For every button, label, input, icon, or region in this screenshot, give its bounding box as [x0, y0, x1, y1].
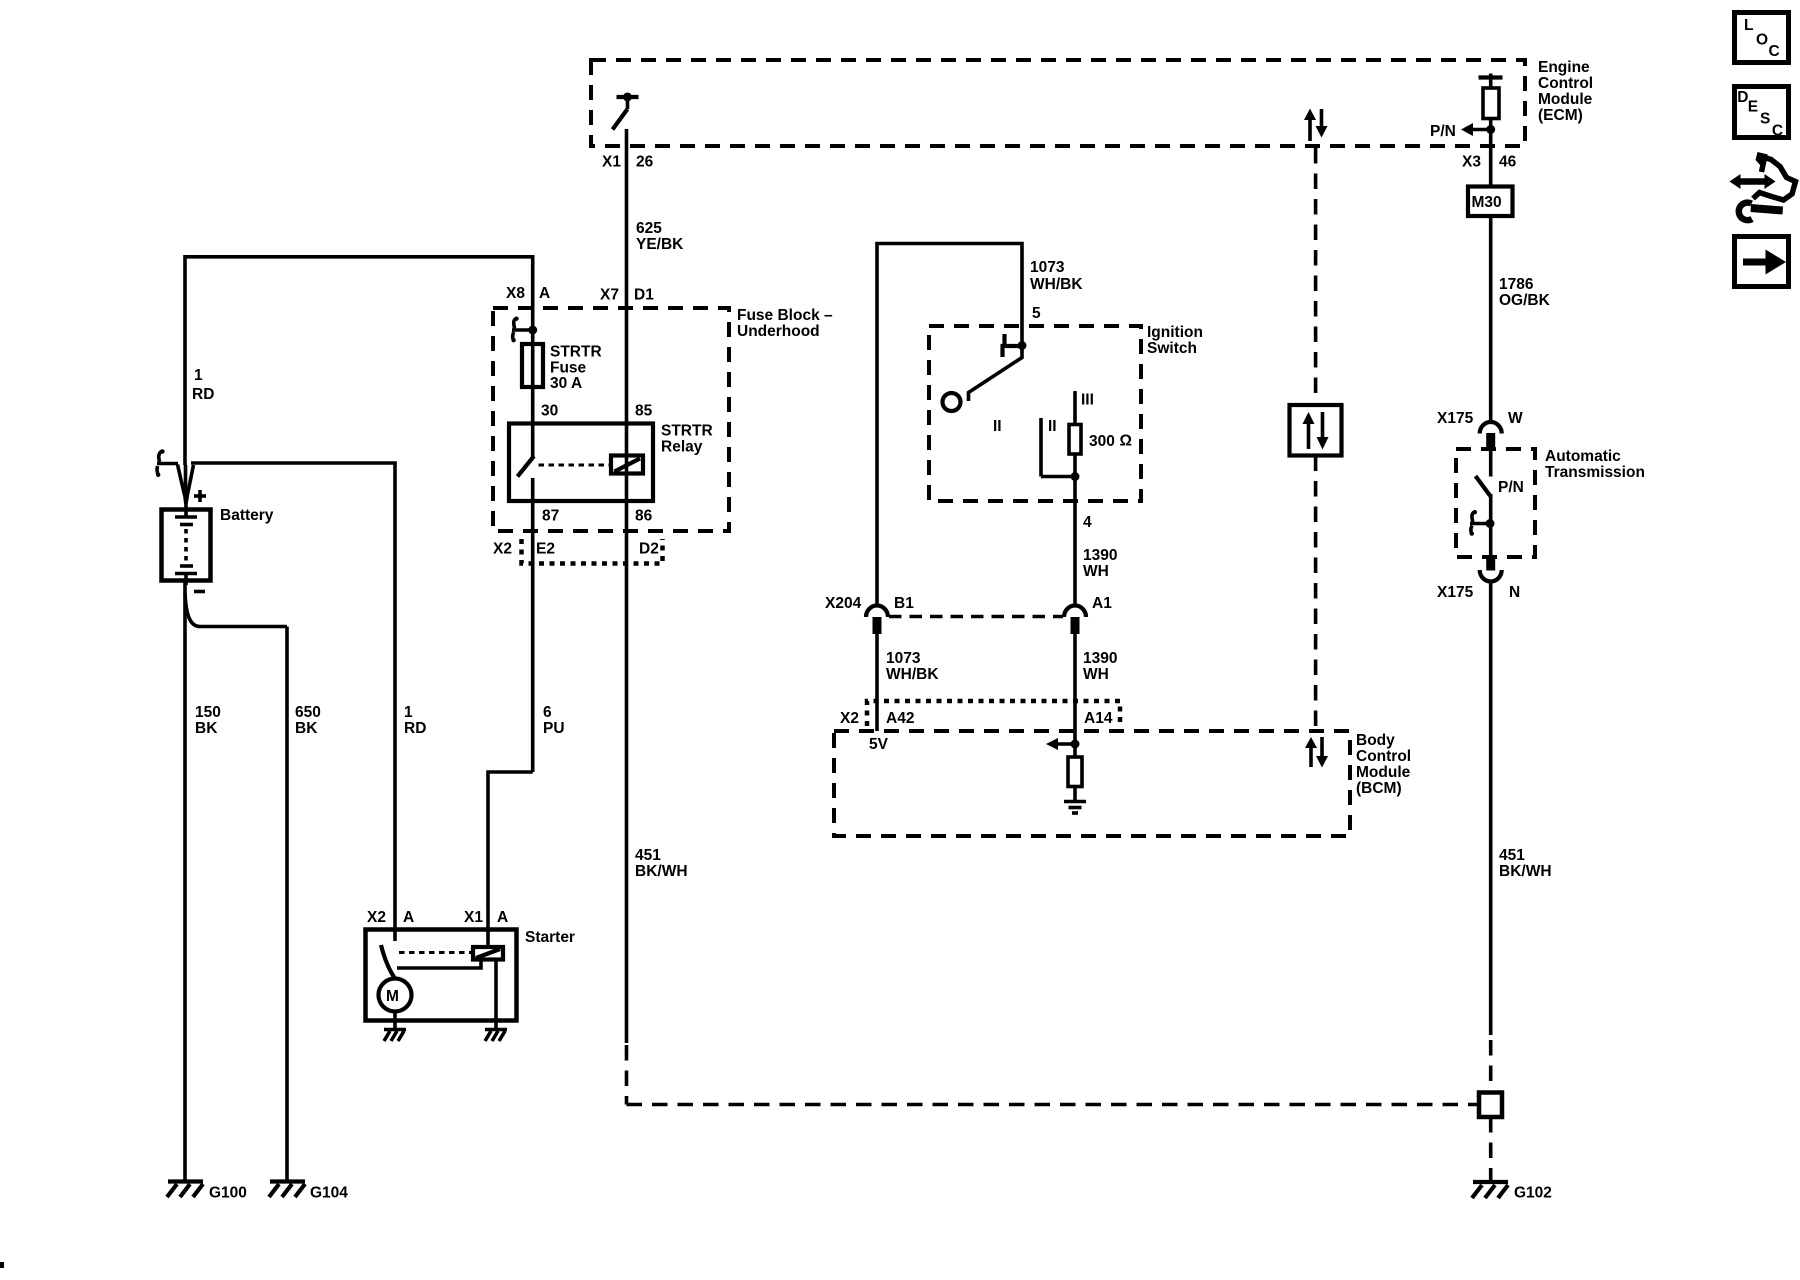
- svg-text:X3: X3: [1462, 154, 1481, 171]
- svg-text:D2: D2: [639, 541, 659, 558]
- svg-text:RD: RD: [192, 386, 214, 403]
- svg-text:X2: X2: [367, 909, 386, 926]
- svg-text:YE/BK: YE/BK: [636, 236, 684, 253]
- svg-text:G104: G104: [310, 1185, 348, 1202]
- svg-text:Fuse Block –: Fuse Block –: [737, 307, 833, 324]
- svg-text:B1: B1: [894, 595, 914, 612]
- svg-text:A42: A42: [886, 710, 914, 727]
- svg-text:S: S: [1760, 111, 1770, 128]
- svg-text:BK/WH: BK/WH: [1499, 863, 1552, 880]
- svg-text:Switch: Switch: [1147, 340, 1197, 357]
- svg-text:Control: Control: [1538, 75, 1593, 92]
- svg-text:RD: RD: [404, 720, 426, 737]
- svg-text:BK/WH: BK/WH: [635, 863, 688, 880]
- svg-text:X1: X1: [602, 154, 621, 171]
- svg-text:BK: BK: [295, 720, 318, 737]
- svg-text:625: 625: [636, 220, 662, 237]
- svg-text:46: 46: [1499, 154, 1517, 171]
- svg-text:Fuse: Fuse: [550, 360, 587, 377]
- svg-text:30: 30: [541, 403, 558, 420]
- svg-text:A: A: [539, 285, 550, 302]
- svg-text:5V: 5V: [869, 736, 889, 753]
- svg-text:BK: BK: [195, 720, 218, 737]
- svg-text:L: L: [1744, 17, 1753, 34]
- svg-text:Starter: Starter: [525, 929, 575, 946]
- svg-text:(BCM): (BCM): [1356, 780, 1402, 797]
- svg-text:X175: X175: [1437, 584, 1474, 601]
- svg-text:A1: A1: [1092, 595, 1112, 612]
- svg-text:II: II: [1048, 418, 1057, 435]
- svg-text:1: 1: [194, 367, 203, 384]
- svg-text:650: 650: [295, 704, 321, 721]
- svg-text:Automatic: Automatic: [1545, 448, 1621, 465]
- svg-text:30 A: 30 A: [550, 375, 582, 392]
- svg-text:A: A: [403, 909, 414, 926]
- svg-text:Underhood: Underhood: [737, 323, 820, 340]
- svg-text:WH: WH: [1083, 563, 1109, 580]
- svg-text:1390: 1390: [1083, 547, 1117, 564]
- svg-text:X204: X204: [825, 595, 862, 612]
- svg-text:O: O: [1756, 32, 1768, 49]
- svg-text:C: C: [1769, 43, 1780, 60]
- svg-text:G100: G100: [209, 1185, 247, 1202]
- svg-text:E: E: [1748, 98, 1758, 115]
- svg-text:OG/BK: OG/BK: [1499, 292, 1551, 309]
- svg-text:1786: 1786: [1499, 276, 1534, 293]
- svg-text:G102: G102: [1514, 1185, 1552, 1202]
- svg-text:X2: X2: [493, 541, 512, 558]
- svg-text:M: M: [386, 988, 399, 1005]
- svg-text:Relay: Relay: [661, 439, 703, 456]
- svg-text:N: N: [1509, 584, 1520, 601]
- svg-text:P/N: P/N: [1498, 479, 1524, 496]
- svg-text:6: 6: [543, 704, 552, 721]
- svg-text:Ω: Ω: [1120, 433, 1132, 450]
- svg-text:Battery: Battery: [220, 507, 274, 524]
- svg-text:C: C: [1772, 123, 1783, 140]
- svg-text:Module: Module: [1538, 91, 1593, 108]
- svg-text:X1: X1: [464, 909, 483, 926]
- svg-text:300: 300: [1089, 433, 1115, 450]
- svg-text:Control: Control: [1356, 748, 1411, 765]
- svg-text:Body: Body: [1356, 732, 1395, 749]
- svg-text:1073: 1073: [1030, 259, 1065, 276]
- svg-text:WH/BK: WH/BK: [1030, 276, 1083, 293]
- svg-text:451: 451: [1499, 847, 1525, 864]
- svg-text:X8: X8: [506, 285, 525, 302]
- svg-text:A: A: [497, 909, 508, 926]
- svg-text:X175: X175: [1437, 410, 1474, 427]
- svg-text:WH/BK: WH/BK: [886, 666, 939, 683]
- svg-text:150: 150: [195, 704, 221, 721]
- svg-text:1073: 1073: [886, 650, 921, 667]
- svg-text:Engine: Engine: [1538, 59, 1590, 76]
- svg-text:1390: 1390: [1083, 650, 1117, 667]
- svg-text:5: 5: [1032, 305, 1041, 322]
- svg-text:III: III: [1081, 392, 1094, 409]
- svg-text:X7: X7: [600, 287, 619, 304]
- svg-text:87: 87: [542, 508, 559, 525]
- svg-text:P/N: P/N: [1430, 123, 1456, 140]
- svg-text:Module: Module: [1356, 764, 1411, 781]
- svg-text:X2: X2: [840, 710, 859, 727]
- svg-text:E2: E2: [536, 541, 555, 558]
- svg-text:STRTR: STRTR: [550, 344, 602, 361]
- svg-text:1: 1: [404, 704, 413, 721]
- svg-text:26: 26: [636, 154, 654, 171]
- svg-text:D1: D1: [634, 287, 654, 304]
- svg-text:WH: WH: [1083, 666, 1109, 683]
- svg-text:PU: PU: [543, 720, 565, 737]
- svg-text:A14: A14: [1084, 710, 1113, 727]
- svg-text:M30: M30: [1472, 194, 1502, 211]
- svg-text:II: II: [993, 418, 1002, 435]
- svg-text:451: 451: [635, 847, 661, 864]
- svg-text:(ECM): (ECM): [1538, 107, 1583, 124]
- svg-text:85: 85: [635, 403, 653, 420]
- svg-text:Transmission: Transmission: [1545, 464, 1645, 481]
- svg-text:4: 4: [1083, 514, 1092, 531]
- svg-text:86: 86: [635, 508, 653, 525]
- svg-text:W: W: [1508, 410, 1523, 427]
- svg-text:STRTR: STRTR: [661, 423, 713, 440]
- svg-text:Ignition: Ignition: [1147, 324, 1203, 341]
